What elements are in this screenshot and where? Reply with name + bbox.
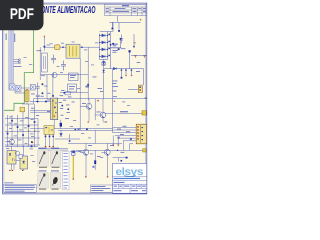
waveform photo W4 [50, 173, 61, 190]
net labels secondary bottom [88, 145, 114, 168]
PWM IC U2 (yellow) [44, 126, 54, 135]
ground (opto) [9, 170, 23, 171]
transformer T1 [51, 98, 58, 120]
wire (aux pair into T1) [30, 111, 51, 113]
page background [0, 0, 149, 198]
startup resistor box [65, 92, 70, 95]
net labels mid [61, 86, 101, 131]
fuse F2 box [30, 85, 35, 91]
wire (opto area) [5, 146, 38, 170]
wire (Q1/Q2 leads) [80, 99, 103, 121]
zener D10 [94, 160, 96, 164]
waveform photo W2 [50, 150, 61, 168]
net label squares top right [109, 28, 120, 57]
output connector CN3 [136, 124, 146, 144]
scattered value labels [24, 57, 131, 162]
waveform photo W1 [38, 150, 49, 168]
junction diamonds [36, 100, 39, 103]
net label squares left of T1 [42, 83, 44, 85]
net label squares left mesh [7, 120, 36, 143]
posistor PT1 [25, 90, 29, 102]
capacitor C2 [61, 61, 66, 71]
waveform photo caption W2 [51, 148, 59, 149]
NTC TH1 [20, 107, 25, 112]
input connector block [10, 84, 22, 92]
waveform photo caption W4 [51, 170, 59, 171]
border frame [3, 3, 147, 194]
revision table [105, 4, 147, 15]
revision table text [106, 5, 146, 12]
feedback optocoupler U3 [7, 151, 16, 165]
transistor Q2 [100, 112, 106, 118]
winding pin labels T1 [47, 100, 62, 112]
net label (rotated, left of bus) [6, 34, 16, 43]
transistor Q3 [9, 139, 14, 144]
title block rows [112, 177, 146, 193]
title block text [114, 178, 141, 179]
fuse F1 [55, 45, 61, 50]
node +310V rail [110, 32, 112, 69]
value labels mains area [41, 42, 98, 77]
net label squares right top [129, 50, 131, 52]
junction dots on bridge [99, 35, 108, 57]
waveform photo caption W1 [39, 148, 47, 149]
svg-text:elsys: elsys [116, 166, 144, 178]
net label squares under rail [121, 69, 133, 71]
wire (aux top right) [131, 54, 147, 56]
junction [81, 46, 83, 48]
transistor Q4 (small circle) [15, 151, 19, 155]
wire (right top rail) [104, 16, 144, 90]
aux connector CN4 [138, 85, 142, 93]
net label speckles left mesh extra [6, 117, 34, 150]
fuse symbols in connector [11, 85, 21, 91]
diode D5 [102, 62, 105, 66]
ground (PT1) [26, 89, 27, 90]
diode D8 [60, 133, 63, 136]
waveform photo W3 [38, 173, 49, 190]
ground (Q5 Q6) [85, 176, 108, 177]
Y-capacitor CY2 [36, 92, 40, 100]
wire (T1 primary feed) [52, 75, 54, 95]
wire (under transformer) [30, 120, 113, 131]
wire (net bus top right) [108, 23, 141, 49]
doc number box [90, 185, 112, 192]
waveform photo caption W3 [39, 170, 47, 171]
polarity marks left mesh [28, 130, 36, 131]
net label +B [120, 111, 128, 112]
capacitor C7 [120, 39, 123, 40]
net labels bottom primary [45, 128, 88, 142]
left control mesh wires [5, 104, 40, 147]
net labels above title block [117, 150, 128, 162]
diode D6 on rail [113, 67, 116, 70]
parts list column [63, 152, 69, 190]
net labels mid right [93, 77, 118, 98]
IC U1 box [68, 84, 77, 92]
capacitor C5 (circle) [52, 72, 57, 77]
output rail +B [105, 112, 143, 114]
snubber diode D7 [60, 123, 62, 127]
wire (secondary bottom) [68, 143, 143, 176]
polarity marks (red) [88, 101, 116, 123]
net label +310V [113, 44, 118, 47]
transistor Q5 [83, 149, 89, 155]
Y-capacitor CY1 [36, 83, 40, 93]
X capacitor CX1 [41, 53, 47, 72]
polarized cap marks [125, 75, 132, 77]
ground (bottom resistors) [45, 146, 54, 147]
line filter LF1 [66, 44, 80, 58]
transistor Q6 [104, 149, 110, 155]
error amp U4 [20, 156, 28, 169]
wire (connector to fuse) [15, 88, 34, 104]
wire (mains top) [40, 47, 99, 100]
bridge rectifier ladder D4 [100, 55, 108, 58]
junction and ground near mesh bottom [31, 145, 33, 147]
ground ticks (bundle) [112, 145, 119, 147]
net labels right column [112, 50, 140, 91]
connector pin (yellow) [143, 149, 146, 152]
net labels output [117, 126, 132, 140]
3-pin plug on bus [14, 59, 19, 64]
junction [62, 46, 64, 48]
test point red [97, 100, 99, 102]
net label speckles upper mid [31, 93, 75, 116]
junction [87, 84, 89, 86]
diode D12 [102, 70, 105, 72]
wire (bottom primary) [38, 130, 80, 150]
diode D9 [72, 151, 75, 153]
polarity mark [134, 42, 135, 43]
isolation boundary (green) [4, 16, 33, 110]
transistor Q1 (chopper) [86, 103, 92, 109]
net label under plug [14, 65, 22, 68]
capacitor C1 [51, 55, 56, 64]
PDF badge [0, 0, 44, 30]
notes box [4, 184, 37, 192]
bridge rectifier ladder D1 [100, 34, 108, 37]
wire (primary mid) [30, 58, 147, 143]
bridge rectifier ladder D3 [100, 48, 108, 51]
test point (red) [134, 56, 145, 58]
border tick [145, 97, 147, 99]
mains bus CN1 (lavender band) [9, 16, 14, 90]
title block frame [112, 163, 146, 193]
junction squares upper mid [62, 92, 70, 110]
antenna test point TP1 [43, 37, 45, 51]
ground (R1) [73, 178, 74, 179]
tiny value labels left mesh [6, 117, 34, 142]
wire (bridge output down) [103, 66, 105, 99]
bridge rails / wires [100, 22, 113, 66]
relay K1 box [69, 73, 79, 81]
diode D11 [133, 46, 135, 48]
svg-text:PDF: PDF [10, 6, 34, 23]
svg-text:FONTE ALIMENTACAO: FONTE ALIMENTACAO [38, 5, 96, 16]
note label above box [5, 181, 14, 184]
resistor R1 (tall yellow) [72, 153, 74, 178]
wire (output bundle) [113, 127, 137, 141]
bridge rectifier ladder D2 [100, 41, 108, 44]
